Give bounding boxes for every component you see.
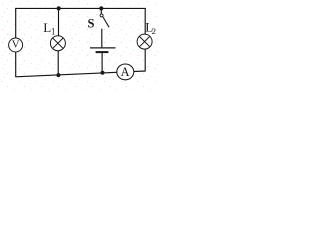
wire: L1 branch upper: [58, 8, 60, 36]
svg-text:1: 1: [51, 27, 56, 37]
switch S blade: [103, 17, 109, 27]
voltmeter V1 circle: [9, 38, 23, 52]
battery long plate (positive): [90, 47, 116, 49]
svg-text:S: S: [88, 17, 95, 31]
junction node top-left (L1 top): [57, 6, 61, 10]
wire: right vertical lower (lamp L2 to bottom rail): [144, 49, 146, 72]
wire: battery to bottom junction: [101, 53, 103, 73]
wire: switch fixed contact down to battery: [101, 29, 103, 48]
junction node top-mid (switch top): [99, 6, 103, 10]
wire: top horizontal: [15, 7, 146, 9]
wire: right vertical upper (to lamp L2): [144, 8, 146, 34]
lamp L2 cross: [140, 37, 150, 47]
junction node bottom (L1 bottom): [56, 73, 60, 77]
svg-text:2: 2: [152, 26, 156, 36]
junction node bottom (battery bottom): [101, 71, 105, 75]
battery short plate (negative): [96, 51, 109, 53]
wire: bottom sloped rail: [15, 71, 145, 77]
paper background: [0, 0, 160, 90]
svg-text:A: A: [121, 65, 130, 79]
lamp L1 circle: [50, 36, 65, 51]
wire: left vertical upper (to voltmeter): [15, 8, 17, 38]
lamp L2 circle: [137, 34, 152, 49]
ammeter A1 circle: [117, 64, 134, 80]
switch S pivot circle: [100, 14, 103, 17]
wire: switch branch upper: [100, 8, 102, 14]
wire: left vertical lower (voltmeter to bottom): [15, 52, 17, 77]
wire: L1 branch lower: [57, 51, 59, 76]
svg-text:V: V: [12, 39, 20, 51]
lamp L1 cross: [53, 38, 63, 48]
